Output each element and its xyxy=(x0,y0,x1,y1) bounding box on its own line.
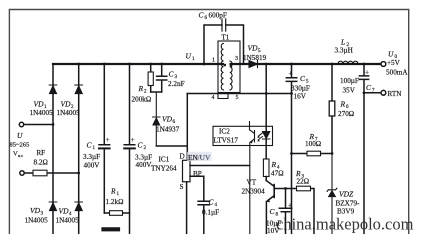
capacitor C2 xyxy=(124,64,135,234)
svg-text:RF: RF xyxy=(37,149,46,157)
svg-text:+5V: +5V xyxy=(387,59,401,67)
svg-text:TNY264: TNY264 xyxy=(151,165,177,173)
svg-text:2: 2 xyxy=(144,90,147,95)
transistor VT 2N3904 xyxy=(273,185,275,198)
capacitor C6 plates xyxy=(222,19,226,31)
svg-text:D: D xyxy=(180,153,185,161)
wire: drain node to IC1 D pin xyxy=(156,94,187,161)
capacitor C3 xyxy=(157,64,167,92)
capacitor C6 legs xyxy=(204,25,244,64)
svg-text:VD: VD xyxy=(162,115,173,124)
svg-text:1N5819: 1N5819 xyxy=(243,54,267,62)
transformer T1 bottom bracket xyxy=(218,93,228,99)
transformer T1 primary winding xyxy=(221,44,223,90)
svg-text:5: 5 xyxy=(236,95,239,101)
svg-text:china.makepolo.com: china.makepolo.com xyxy=(276,215,414,234)
svg-text:IC1: IC1 xyxy=(159,156,170,164)
svg-text:+: + xyxy=(106,136,110,144)
svg-text:200kΩ: 200kΩ xyxy=(132,96,152,104)
svg-text:VD: VD xyxy=(59,207,70,216)
transformer T1 secondary winding xyxy=(230,61,232,90)
LED light arrows xyxy=(258,133,262,140)
svg-text:R: R xyxy=(340,100,346,109)
svg-text:270Ω: 270Ω xyxy=(338,110,354,118)
resistor R1 xyxy=(104,212,129,214)
diode VD6 xyxy=(153,92,160,146)
inductor L2 xyxy=(338,61,358,64)
wire: VD2/VD4 column xyxy=(78,64,80,234)
svg-text:+: + xyxy=(365,69,369,77)
optocoupler phototransistor xyxy=(250,122,255,235)
svg-text:2: 2 xyxy=(144,146,147,151)
wire: VD1/VD3 column xyxy=(52,64,54,234)
svg-text:1N4005: 1N4005 xyxy=(57,109,81,117)
svg-text:100Ω: 100Ω xyxy=(305,140,321,148)
svg-text:VT: VT xyxy=(247,179,257,187)
svg-text:1.2kΩ: 1.2kΩ xyxy=(106,198,124,206)
svg-text:35V: 35V xyxy=(343,87,356,95)
svg-text:VD: VD xyxy=(61,100,72,109)
svg-text:U: U xyxy=(388,50,394,59)
diode VD5 xyxy=(249,60,258,67)
svg-text:+: + xyxy=(131,136,135,144)
svg-text:400V: 400V xyxy=(136,161,153,169)
svg-text:R: R xyxy=(110,187,116,196)
svg-text:BP: BP xyxy=(193,170,202,178)
svg-text:500mA: 500mA xyxy=(386,69,408,77)
wire: primary top rail xyxy=(53,63,223,65)
svg-text:47Ω: 47Ω xyxy=(271,170,284,178)
svg-text:/UV: /UV xyxy=(198,153,211,162)
wire: RTN stub xyxy=(364,92,381,94)
svg-text:2N3904: 2N3904 xyxy=(242,188,266,196)
svg-text:L: L xyxy=(340,38,345,47)
svg-text:100µF: 100µF xyxy=(340,77,359,85)
svg-text:a.c: a.c xyxy=(18,153,23,158)
svg-text:1N4005: 1N4005 xyxy=(56,217,80,225)
diode VD2 xyxy=(75,85,83,94)
diode VD1 xyxy=(49,85,57,94)
svg-text:4: 4 xyxy=(212,95,215,101)
svg-text:3: 3 xyxy=(235,56,238,62)
wire: IC1 S pin to bottom xyxy=(186,182,188,234)
svg-text:3.3µF: 3.3µF xyxy=(83,153,100,161)
wire: IC1 BP pin to C4 xyxy=(190,176,204,201)
resistor R4 xyxy=(263,159,269,177)
svg-text:1N4005: 1N4005 xyxy=(25,217,49,225)
svg-text:1N4005: 1N4005 xyxy=(30,109,54,117)
svg-text:6: 6 xyxy=(205,16,208,21)
svg-text:VD: VD xyxy=(248,44,259,53)
node: +5V output terminal xyxy=(381,62,386,67)
svg-text:1: 1 xyxy=(117,192,120,197)
svg-text:3.3µH: 3.3µH xyxy=(335,47,353,55)
diode VD4 xyxy=(75,202,83,211)
svg-text:R: R xyxy=(271,160,277,169)
capacitor C8 xyxy=(279,189,291,235)
capacitor C5 xyxy=(286,64,296,234)
capacitor C1 xyxy=(99,64,110,213)
node: RTN output terminal xyxy=(381,90,386,95)
resistor R7 xyxy=(292,153,333,155)
wire: clamp bottom xyxy=(151,91,162,93)
svg-text:R: R xyxy=(138,84,144,93)
svg-text:U: U xyxy=(186,52,192,61)
svg-text:+: + xyxy=(288,202,292,210)
label EN/UV pin xyxy=(187,152,212,161)
svg-text:0.1µF: 0.1µF xyxy=(202,209,219,217)
zener diode VDZ xyxy=(327,154,337,235)
resistor RF body xyxy=(33,170,47,176)
capacitor C7 xyxy=(359,64,368,234)
node: AC input 1 terminal xyxy=(19,122,23,126)
diode VD3 xyxy=(49,202,57,211)
svg-text:400V: 400V xyxy=(84,162,101,170)
ground bar under R1 xyxy=(104,227,119,231)
wire: transformer bottom lead line xyxy=(187,93,291,95)
svg-text:BZX79-: BZX79- xyxy=(336,200,361,208)
IC1 TNY264 body xyxy=(183,160,191,182)
wire: LED column from rail through return xyxy=(265,64,267,131)
svg-text:2.2nF: 2.2nF xyxy=(168,80,185,88)
svg-text:VD: VD xyxy=(34,100,45,109)
optocoupler LED xyxy=(263,132,270,140)
svg-text:VDZ: VDZ xyxy=(339,190,354,199)
capacitor C4 xyxy=(198,201,209,234)
svg-text:1: 1 xyxy=(212,58,215,64)
wire: input 2 through RF to bridge xyxy=(24,172,78,174)
wire: secondary top rail xyxy=(231,63,382,65)
wire: IC1 EN/UV pin to optocoupler emitter xyxy=(190,165,250,167)
resistor R2 xyxy=(150,64,152,92)
optocoupler IC2 box xyxy=(213,126,273,145)
svg-text:IC2: IC2 xyxy=(219,128,230,136)
svg-text:4: 4 xyxy=(215,203,218,208)
svg-text:16V: 16V xyxy=(294,93,307,101)
node dots on rails xyxy=(52,63,366,190)
svg-text:VD: VD xyxy=(30,206,41,215)
svg-text:1N4937: 1N4937 xyxy=(156,126,180,134)
svg-text:6: 6 xyxy=(173,120,176,125)
svg-text:600pF: 600pF xyxy=(209,12,227,20)
wire: input 1 to bridge xyxy=(24,124,53,126)
transformer T1 core box xyxy=(218,41,240,93)
resistor R3 xyxy=(286,189,315,235)
svg-text:330µF: 330µF xyxy=(291,85,310,93)
svg-text:RTN: RTN xyxy=(388,90,403,98)
svg-text:1: 1 xyxy=(93,146,96,151)
svg-text:S: S xyxy=(180,183,184,191)
node: AC input 2 terminal xyxy=(20,171,24,175)
svg-text:85~265: 85~265 xyxy=(10,142,30,149)
svg-text:U: U xyxy=(17,131,23,140)
transformer phase dot secondary xyxy=(230,65,233,68)
transformer phase dot primary xyxy=(224,64,227,67)
svg-text:+: + xyxy=(289,70,293,78)
svg-text:22Ω: 22Ω xyxy=(297,178,310,186)
svg-text:T1: T1 xyxy=(222,34,230,42)
resistor R6 xyxy=(331,64,333,154)
svg-text:8.2Ω: 8.2Ω xyxy=(34,159,48,167)
svg-text:LTVS17: LTVS17 xyxy=(214,137,239,145)
svg-text:1: 1 xyxy=(192,57,195,62)
